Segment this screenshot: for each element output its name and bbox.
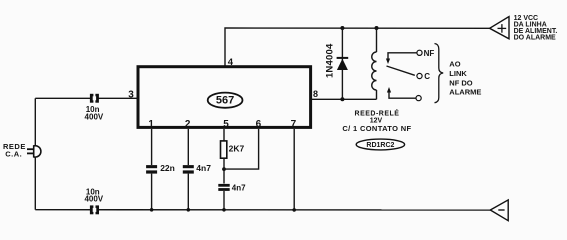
op-amp U1 567 tone decoder box [138, 67, 311, 128]
wire pin5 cap to rail [223, 191, 225, 210]
svg-text:C/ 1 CONTATO NF: C/ 1 CONTATO NF [342, 124, 411, 133]
node coil top junction [375, 26, 379, 30]
diode D1 1N4004 [325, 28, 349, 99]
wire plug lower lead [34, 157, 36, 210]
svg-text:ALARME: ALARME [449, 88, 481, 97]
svg-text:NF: NF [424, 49, 435, 58]
relay contact NA terminal [387, 87, 421, 101]
pin 6 label [256, 119, 262, 130]
pin 2 label [185, 119, 191, 130]
svg-text:C: C [424, 72, 430, 81]
wire pin3 to mains cap [35, 97, 138, 99]
svg-text:1: 1 [148, 119, 154, 130]
wire pin2 cap to rail [187, 174, 189, 210]
wire top rail (pin4 to +12V) [225, 28, 490, 66]
svg-text:REED-RELÉ: REED-RELÉ [355, 108, 400, 117]
svg-text:AO: AO [449, 60, 460, 69]
svg-text:7: 7 [291, 119, 297, 130]
pin 7 label [291, 119, 297, 130]
pin 3 label [128, 89, 134, 100]
terminal -12V triangle [490, 200, 508, 221]
node pin7 rail junction [292, 208, 296, 212]
svg-text:RD1RC2: RD1RC2 [366, 142, 394, 149]
svg-text:C.A.: C.A. [5, 149, 22, 158]
svg-text:2: 2 [185, 119, 191, 130]
wire pin8 to relay coil bottom [311, 98, 377, 100]
svg-text:LINK: LINK [449, 69, 467, 78]
capacitor C5 4n7 [218, 184, 246, 193]
node pin1 rail junction [150, 208, 154, 212]
node diode top junction [340, 26, 344, 30]
wire plug upper lead [34, 98, 36, 146]
wire pin5 lead [223, 129, 225, 141]
wire resistor to junction [223, 158, 225, 183]
svg-text:2K7: 2K7 [229, 144, 245, 154]
node pin5/pin6 junction [222, 167, 226, 171]
svg-text:567: 567 [216, 95, 234, 107]
capacitor C4 4n7 [183, 163, 211, 174]
node diode bottom junction [340, 97, 344, 101]
svg-text:4n7: 4n7 [196, 163, 211, 173]
node pin5 rail junction [222, 208, 226, 212]
brace contacts group [435, 44, 444, 103]
svg-text:8: 8 [313, 89, 318, 99]
relay contact lever [387, 66, 415, 75]
svg-text:1N4004: 1N4004 [325, 43, 336, 78]
svg-text:5: 5 [223, 119, 229, 130]
node label AO LINK NF DO ALARME [449, 60, 481, 97]
pin 8 label [313, 89, 318, 99]
capacitor C1 10n 400V (top mains) [85, 94, 104, 122]
relay contact C terminal [417, 72, 430, 81]
capacitor C3 22n [146, 163, 175, 174]
node label 12 VCC DA LINHA DE ALIMENT. DO ALARME [514, 15, 558, 42]
relay contact NF terminal [386, 49, 434, 64]
terminal +12V triangle [490, 17, 509, 39]
svg-text:NF DO: NF DO [449, 79, 472, 88]
svg-text:22n: 22n [160, 163, 175, 173]
pin 1 label [148, 119, 154, 130]
pin 4 label [228, 57, 234, 68]
relay K1 value label REED-RELE 12V [342, 108, 411, 133]
svg-text:400V: 400V [85, 112, 104, 121]
relay coil K1 [372, 28, 377, 99]
svg-text:4: 4 [228, 57, 234, 68]
wire pin7 to rail [293, 129, 295, 210]
relay part number RD1RC2 [356, 139, 404, 150]
wire pin1 cap to rail [151, 174, 153, 210]
pin 5 label [223, 119, 229, 130]
wire pin2 lead [187, 129, 189, 165]
svg-text:4n7: 4n7 [232, 184, 246, 193]
svg-text:400V: 400V [84, 194, 103, 203]
node pin2 rail junction [187, 208, 191, 212]
resistor R1 2K7 [221, 141, 245, 158]
svg-text:DO ALARME: DO ALARME [514, 35, 556, 42]
capacitor C2 10n 400V (bottom mains) [84, 187, 103, 214]
wire pin6 to junction [224, 129, 259, 169]
wire bottom rail [35, 209, 490, 211]
svg-text:6: 6 [256, 119, 262, 130]
AC plug (REDE C.A.) [3, 142, 41, 159]
wire pin1 lead [151, 129, 153, 165]
